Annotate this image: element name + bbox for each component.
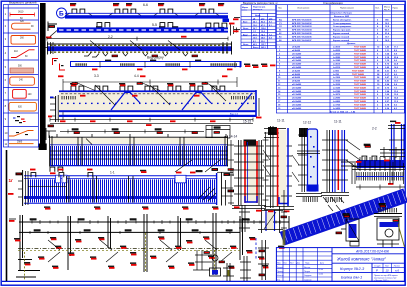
red section label left of band B [9, 178, 14, 183]
staples above big beam [70, 83, 225, 91]
svg-text:АРБ 2017.06-024.03: АРБ 2017.06-024.03 [292, 25, 312, 28]
svg-text:2-2: 2-2 [108, 35, 113, 39]
svg-text:ø16 А400: ø16 А400 [292, 63, 302, 66]
olive dashed verticals [25, 233, 215, 280]
label 6-6 [143, 3, 148, 7]
svg-text:ø6 А240: ø6 А240 [292, 73, 301, 76]
svg-text:4-4: 4-4 [134, 74, 139, 78]
rebar shape row9: mark cluster [13, 116, 26, 123]
spec table row texts [279, 12, 390, 46]
svg-text:ГОСТ 34028: ГОСТ 34028 [352, 69, 365, 72]
svg-text:Всего: Всего [253, 47, 259, 49]
svg-text:ГОСТ 34028: ГОСТ 34028 [354, 86, 367, 89]
svg-text:ø8 А240: ø8 А240 [292, 76, 301, 79]
svg-text:ГОСТ 34028: ГОСТ 34028 [354, 52, 367, 55]
svg-text:L=1870: L=1870 [333, 94, 341, 96]
svg-text:Каркас плоский: Каркас плоский [333, 35, 350, 38]
svg-text:L=2820: L=2820 [333, 50, 341, 52]
label 5-5 [152, 23, 157, 27]
svg-text:Изм.: Изм. [277, 263, 281, 265]
svg-text:АРБ 2017.06-024.05: АРБ 2017.06-024.05 [292, 32, 312, 35]
text Вид сверху [147, 56, 164, 60]
blue dashed vertical marker [255, 238, 257, 260]
svg-text:Балка Бм-1: Балка Бм-1 [341, 275, 362, 280]
svg-text:АРБ 2017.06-024.07: АРБ 2017.06-024.07 [292, 39, 312, 42]
svg-text:ГОСТ 34028: ГОСТ 34028 [354, 97, 367, 100]
hook symbols below beam 3 [84, 53, 99, 58]
corner angle detail left [46, 125, 56, 140]
svg-text:Балка объединит.: Балка объединит. [333, 18, 352, 21]
svg-text:1-1: 1-1 [110, 170, 115, 174]
svg-text:ГОСТ 34028: ГОСТ 34028 [354, 49, 367, 52]
dimension line above beam 3 [47, 37, 228, 41]
red dims under big beam [60, 120, 216, 126]
rebar shape row10: diagonal bar [9, 131, 34, 137]
svg-text:Лист: Лист [290, 263, 294, 265]
layout top dim ticks [30, 219, 280, 234]
svg-text:6-6: 6-6 [143, 3, 148, 7]
bent-up bars in big beam [111, 92, 252, 110]
svg-text:ГОСТ 34028: ГОСТ 34028 [354, 46, 367, 49]
svg-text:ГОСТ 34028: ГОСТ 34028 [354, 83, 367, 86]
svg-text:L=1180: L=1180 [333, 77, 341, 79]
extra layout labels [14, 238, 269, 268]
band B stirrup hooks on top [30, 169, 147, 178]
labels 3-3 4-4 [58, 74, 228, 78]
svg-text:38,8: 38,8 [261, 38, 265, 40]
svg-text:ГОСТ 34028: ГОСТ 34028 [354, 56, 367, 59]
svg-text:ø16 А400: ø16 А400 [292, 103, 302, 106]
svg-text:ø8: ø8 [253, 18, 255, 20]
svg-text:АРБ 2017.06-024.01: АРБ 2017.06-024.01 [292, 18, 312, 21]
svg-text:Разраб.: Разраб. [277, 267, 284, 269]
title block [276, 248, 404, 282]
band B top notch [175, 172, 196, 183]
staples group right of beam1 end [205, 23, 227, 30]
layout label pairs row3 [38, 256, 265, 260]
layout label pairs row4 [52, 266, 235, 269]
svg-text:L=2660: L=2660 [333, 53, 341, 55]
svg-text:ГОСТ 34028: ГОСТ 34028 [354, 80, 367, 83]
staircase flight diagonal band [280, 189, 407, 246]
svg-text:74,3: 74,3 [261, 33, 265, 36]
svg-text:Ведомость деталей: Ведомость деталей [9, 1, 37, 5]
svg-text:ø10 А400: ø10 А400 [292, 52, 302, 55]
steel consumption table [241, 1, 278, 49]
right edge rebar column [388, 121, 405, 160]
svg-text:L=2460: L=2460 [333, 100, 341, 103]
leader lines into big beam [72, 82, 220, 91]
svg-text:L=3610: L=3610 [333, 64, 341, 66]
black separator bar [39, 3, 47, 150]
beam 4 plan strip [71, 60, 276, 71]
svg-text:Корпус №2-3: Корпус №2-3 [340, 266, 365, 271]
layout label pairs row2 [55, 246, 285, 249]
rebar shape row1: straight bar [10, 11, 35, 20]
svg-text:Бетон кл. В25: Бетон кл. В25 [334, 16, 350, 18]
svg-text:АРБ 2017.06-024.06: АРБ 2017.06-024.06 [292, 35, 312, 38]
svg-text:2980: 2980 [17, 141, 23, 143]
svg-text:21,8: 21,8 [253, 34, 257, 36]
beam end detail mid right [206, 126, 230, 139]
svg-text:5-5: 5-5 [152, 23, 157, 27]
beam 3 hatched elevation [44, 41, 232, 55]
svg-text:2-2: 2-2 [372, 127, 377, 131]
svg-text:L=1140: L=1140 [333, 86, 341, 89]
svg-text:129,6: 129,6 [261, 28, 266, 30]
svg-text:АРБ 2017.06-024.04: АРБ 2017.06-024.04 [292, 29, 312, 32]
svg-text:Сетка армирован.: Сетка армирован. [333, 23, 352, 25]
svg-text:Утв.: Утв. [277, 279, 281, 281]
svg-text:Бм: Бм [279, 19, 282, 21]
dimension line below column 11-11 [281, 190, 287, 230]
bottom layout drawing: main grid lines [16, 213, 289, 277]
svg-text:ø8 А240: ø8 А240 [292, 46, 301, 49]
svg-text:н.б: н.б [395, 269, 399, 273]
svg-text:L=1760: L=1760 [333, 104, 341, 106]
svg-text:ГОСТ 34028: ГОСТ 34028 [354, 100, 367, 103]
beam 2 (blue beam with dashed centerline) [46, 23, 237, 39]
fold mark vertical black line [6, 150, 8, 281]
svg-text:L=1060: L=1060 [333, 81, 341, 83]
svg-text:Иванов: Иванов [304, 267, 310, 269]
band B right end [212, 169, 234, 206]
band B inner black dividers [28, 176, 133, 203]
svg-text:Смирнов: Смирнов [304, 279, 312, 281]
svg-text:Бетон кл. В25, м3 — 1,82: Бетон кл. В25, м3 — 1,82 [330, 111, 356, 113]
label 1-1 red above dim [108, 35, 187, 39]
svg-text:12-12: 12-12 [303, 121, 311, 125]
svg-text:ГОСТ 34028: ГОСТ 34028 [354, 107, 367, 110]
stirrup symbols row above beam 1 with labels [70, 3, 224, 14]
svg-text:36,7: 36,7 [253, 28, 257, 30]
detail callout circle Б [57, 8, 67, 18]
labels below band B [44, 206, 219, 209]
node detail with circle bottom-left [193, 250, 225, 270]
stirrup symbols below beam1 [96, 23, 178, 30]
svg-text:3-3: 3-3 [94, 74, 99, 78]
svg-text:ø14 А400: ø14 А400 [292, 97, 302, 100]
svg-text:L=1240: L=1240 [333, 59, 341, 62]
svg-text:24,1: 24,1 [253, 21, 257, 24]
column section 14-14 [232, 140, 266, 212]
leaders right of column 2-2 [346, 140, 371, 170]
layout label pairs row1 [50, 236, 290, 240]
spec table material rows with red gost parts [278, 46, 399, 114]
svg-text:Обозначение: Обозначение [297, 8, 310, 10]
svg-text:47,2: 47,2 [261, 24, 265, 27]
svg-text:г. Москва, 2017 г.: г. Москва, 2017 г. [374, 280, 389, 282]
ticks left of steel table [233, 18, 240, 33]
bottom small box detail [210, 268, 221, 276]
svg-text:Каркас плоский: Каркас плоский [333, 32, 350, 35]
rebar shape row3: closed stirrup [11, 36, 36, 45]
svg-text:Итого: Итого [255, 15, 261, 17]
section cut flags 1Г [53, 59, 66, 71]
svg-text:ГОСТ 34028: ГОСТ 34028 [352, 73, 365, 76]
rebar shape row7: small stirrup [13, 90, 33, 99]
svg-text:L=2210: L=2210 [333, 67, 341, 69]
svg-text:Спецификация: Спецификация [323, 1, 343, 5]
svg-text:265,3: 265,3 [261, 47, 266, 49]
svg-text:Р: Р [376, 269, 378, 273]
svg-text:Б: Б [59, 10, 64, 17]
left table title text [9, 1, 37, 5]
svg-text:ГОСТ 34028: ГОСТ 34028 [354, 103, 367, 106]
band B (beam bottom view dense hatch) [24, 176, 217, 203]
svg-text:ø16 А400: ø16 А400 [292, 66, 302, 69]
svg-text:3610: 3610 [18, 11, 24, 14]
rebar shape row8: long stirrup [9, 102, 36, 111]
svg-text:элем.: элем. [242, 9, 248, 11]
svg-text:Сборочные единицы: Сборочные единицы [330, 12, 352, 15]
black post structure left of baluster [239, 205, 250, 232]
svg-text:ГОСТ 34028: ГОСТ 34028 [354, 63, 367, 66]
dimension group above big beam [63, 77, 237, 120]
svg-text:22,6: 22,6 [261, 41, 265, 43]
splice boxes on band B [56, 175, 68, 183]
bottom right node detail 1 (section with hatch block) [336, 214, 359, 246]
column section 12-12 [296, 128, 322, 197]
big beam Бм-1 elevation [59, 90, 257, 117]
svg-text:Провер.: Провер. [277, 271, 284, 273]
svg-text:L=1520: L=1520 [333, 84, 341, 86]
right post with red marks [258, 240, 269, 280]
band B left end posts [16, 170, 28, 206]
inner bottom frame line [2, 280, 405, 282]
svg-text:L=780: L=780 [333, 74, 340, 76]
svg-text:12.04: 12.04 [319, 269, 324, 271]
svg-text:ø12 А400: ø12 А400 [292, 90, 302, 93]
staple legs joining beam1 [66, 13, 219, 16]
svg-text:1г: 1г [9, 178, 14, 183]
svg-text:Бм-1: Бм-1 [243, 22, 247, 24]
svg-text:Кол.: Кол. [284, 263, 288, 265]
landing slab blue band [341, 157, 405, 190]
svg-text:Вид сверху: Вид сверху [147, 56, 164, 60]
label 1-1 under cage [110, 170, 115, 174]
baluster section detail [258, 206, 287, 233]
combs under columns 12-12 and 2-2 [302, 197, 343, 202]
svg-text:ГОСТ 34028: ГОСТ 34028 [354, 93, 367, 96]
svg-text:ø14 А400: ø14 А400 [292, 100, 302, 103]
svg-text:Ведомость расхода стали, кг: Ведомость расхода стали, кг [243, 1, 278, 5]
cage band (beam side view with stirrups) [50, 134, 229, 167]
svg-text:Н.контр.: Н.контр. [277, 275, 284, 277]
vertical dimension left of 14-14 [228, 140, 234, 205]
svg-text:8,1: 8,1 [269, 25, 272, 27]
bottom post pair 2 [240, 256, 251, 281]
leaders between columns [263, 150, 299, 182]
column section 2-2 [321, 130, 349, 211]
svg-text:Жилой комплекс "Алмаз": Жилой комплекс "Алмаз" [336, 257, 386, 262]
svg-text:40,9: 40,9 [253, 43, 257, 46]
svg-text:ГОСТ 34028: ГОСТ 34028 [354, 90, 367, 93]
layout leader diagonals [48, 240, 232, 262]
svg-text:Подп.: Подп. [305, 263, 310, 265]
svg-text:12,6: 12,6 [253, 25, 257, 27]
svg-text:11-11: 11-11 [277, 119, 285, 123]
svg-text:ГОСТ 34028: ГОСТ 34028 [354, 66, 367, 69]
svg-text:Наименование: Наименование [340, 8, 355, 10]
svg-text:Кол.: Кол. [376, 8, 380, 10]
mesh diagonals in band B right [198, 187, 216, 201]
svg-text:Поз.: Поз. [278, 8, 282, 10]
svg-text:Каркас плоский: Каркас плоский [333, 39, 350, 42]
svg-text:15-15: 15-15 [243, 120, 251, 124]
svg-text:Петров: Петров [304, 271, 310, 273]
svg-text:11-11: 11-11 [334, 120, 342, 124]
svg-text:Бм-1.2: Бм-1.2 [230, 112, 239, 116]
svg-text:ГОСТ 34028: ГОСТ 34028 [354, 76, 367, 79]
leaders below cage band [175, 160, 234, 172]
svg-text:ø12 А400: ø12 А400 [292, 93, 302, 96]
rebar shape row5: plate bar (salmon) [10, 66, 34, 74]
svg-text:14.04: 14.04 [319, 273, 324, 275]
landing beam top right [352, 147, 405, 184]
rebar shape row6: rounded stirrup wide [10, 77, 35, 85]
leaders crossing big beam [95, 85, 226, 105]
svg-text:ГОСТ 34028: ГОСТ 34028 [354, 59, 367, 62]
left table: Ведомость деталей [3, 5, 38, 147]
svg-text:14-14: 14-14 [229, 135, 237, 139]
corner angle detail top-left [48, 22, 57, 32]
svg-text:расход, кг: расход, кг [253, 9, 263, 11]
svg-text:Итого: Итого [243, 28, 249, 30]
svg-text:ø16: ø16 [269, 18, 272, 20]
red mark lower left margin [8, 193, 14, 195]
svg-text:ø16 А400: ø16 А400 [292, 107, 302, 110]
svg-text:10,9: 10,9 [253, 38, 257, 40]
svg-text:ø12 А400: ø12 А400 [292, 56, 302, 59]
svg-text:L=960: L=960 [333, 70, 340, 72]
left corner mark [9, 219, 16, 222]
svg-text:L=2980: L=2980 [333, 98, 341, 100]
svg-text:L=3610: L=3610 [333, 47, 341, 49]
svg-text:Листов: Листов [394, 265, 400, 267]
svg-text:ø8 А240: ø8 А240 [292, 49, 301, 52]
dimension line under big beam [50, 118, 253, 124]
svg-text:Сетка армирован.: Сетка армирован. [333, 26, 352, 28]
rebar shape row2: hairpin [12, 21, 35, 29]
left table row numbers [5, 12, 8, 146]
svg-text:L=2180: L=2180 [333, 91, 341, 93]
svg-text:10: 10 [386, 269, 390, 273]
column section 11-11 [264, 126, 294, 212]
staples below cage left end [50, 167, 63, 174]
section labels above column sections [229, 119, 377, 139]
svg-text:Итого: Итого [243, 44, 249, 46]
layout dash-dot axis line [18, 248, 240, 250]
svg-text:Дата: Дата [320, 263, 324, 265]
beam 1 (top thin blue beam) [65, 13, 229, 22]
svg-text:L=3580: L=3580 [333, 57, 341, 59]
svg-text:8,2: 8,2 [253, 41, 256, 43]
bottom right node detail 2 (step node with circle) [374, 203, 405, 247]
svg-text:Бм-2: Бм-2 [243, 34, 247, 36]
svg-text:Стадия: Стадия [374, 265, 380, 267]
svg-text:ø8 А240: ø8 А240 [292, 80, 301, 83]
svg-text:ед., кг: ед., кг [384, 9, 390, 11]
rebar shape row4: bent bar Z [11, 50, 35, 58]
svg-text:ø10 А400: ø10 А400 [292, 83, 302, 86]
svg-text:ø10 А400: ø10 А400 [292, 86, 302, 89]
svg-text:Сидоров: Сидоров [304, 275, 311, 277]
big beam left end posts [48, 95, 58, 122]
specification table [276, 1, 404, 113]
svg-text:ø12: ø12 [261, 18, 264, 20]
svg-text:Док.: Док. [297, 263, 301, 265]
svg-text:АРБ 2017.06-024.02: АРБ 2017.06-024.02 [292, 22, 312, 25]
svg-text:7,2: 7,2 [269, 34, 272, 36]
svg-text:Лист: Лист [385, 265, 389, 267]
svg-text:Детали: Детали [346, 43, 356, 45]
svg-text:АРБ 2017.06-024-КЖ: АРБ 2017.06-024-КЖ [355, 250, 390, 254]
svg-text:С-1: С-1 [253, 31, 256, 33]
vertical dim between columns [263, 132, 269, 208]
red marks along beam top [80, 95, 200, 97]
dimension line row y131 [60, 129, 204, 134]
anchor text inside beam bottom [230, 112, 239, 116]
svg-text:9,3: 9,3 [269, 22, 272, 24]
bottom post pair 1 [223, 263, 234, 281]
svg-text:Каркас простран.: Каркас простран. [333, 30, 351, 32]
svg-text:Прим.: Прим. [393, 8, 399, 10]
svg-text:135,7: 135,7 [261, 44, 266, 46]
svg-text:L=1420: L=1420 [333, 107, 341, 110]
svg-text:ø12 А400: ø12 А400 [292, 59, 302, 62]
svg-text:ø6 А240: ø6 А240 [292, 69, 301, 72]
big beam right end [255, 90, 261, 118]
rebar shape row11: straight bar orange [9, 141, 34, 143]
tick V marks below beam 3 [103, 53, 198, 57]
